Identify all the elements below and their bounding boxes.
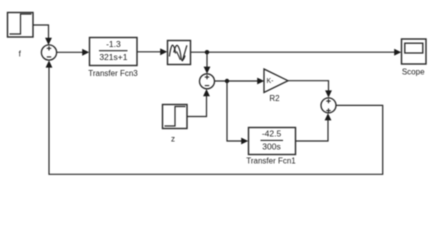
step source z <box>163 105 188 129</box>
transfer function Transfer Fcn3 <box>90 38 138 66</box>
svg-text:-1.3: -1.3 <box>106 39 121 49</box>
junction dot B <box>225 79 229 83</box>
svg-text:Scope: Scope <box>402 67 425 76</box>
feedback wire S3 to S1 <box>46 60 383 174</box>
wire S2 to gain R2 <box>215 78 265 85</box>
sum junction S1 <box>41 45 56 60</box>
svg-text:K-: K- <box>267 78 275 85</box>
sum junction S2 <box>200 74 215 89</box>
junction dot A <box>205 50 209 54</box>
wire R2 to sum S3 <box>288 81 332 98</box>
wire z to sum S2 <box>188 89 210 117</box>
gain R2 <box>264 69 288 93</box>
svg-text:R2: R2 <box>269 94 280 103</box>
svg-text:z: z <box>171 135 175 144</box>
wire junction A down to sum S2 <box>204 52 211 74</box>
signal generator U1 <box>168 41 191 65</box>
wire f to sum S1 <box>34 25 52 45</box>
wire U1 to Scope <box>191 49 402 56</box>
wire junction B down and right to Transfer Fcn1 <box>227 81 248 144</box>
svg-text:321s+1: 321s+1 <box>99 52 127 62</box>
sum junction S3 <box>321 98 336 113</box>
svg-text:Transfer Fcn3: Transfer Fcn3 <box>88 69 138 78</box>
step source f <box>8 13 34 38</box>
transfer function Transfer Fcn1 <box>249 128 296 155</box>
svg-text:-42.5: -42.5 <box>262 128 282 138</box>
svg-text:300s: 300s <box>262 141 280 151</box>
wire Transfer Fcn3 to signal generator U1 <box>138 48 168 55</box>
wire S1 to Transfer Fcn3 <box>57 49 90 56</box>
svg-text:Transfer Fcn1: Transfer Fcn1 <box>246 157 296 166</box>
scope block <box>402 39 427 64</box>
wire Transfer Fcn1 to sum S3 <box>296 113 332 141</box>
